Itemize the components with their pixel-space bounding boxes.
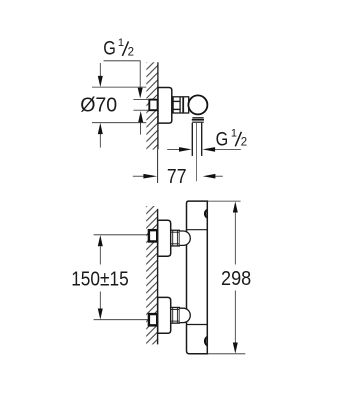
svg-text:2: 2 [241,137,247,149]
svg-text:1: 1 [118,37,124,49]
svg-text:150±15: 150±15 [71,268,129,290]
svg-text:G: G [216,130,229,151]
svg-text:298: 298 [221,268,251,290]
svg-text:77: 77 [167,166,187,188]
svg-text:Ø70: Ø70 [80,95,117,117]
svg-text:G: G [103,38,116,59]
svg-text:1: 1 [231,128,237,140]
svg-text:2: 2 [128,46,134,58]
